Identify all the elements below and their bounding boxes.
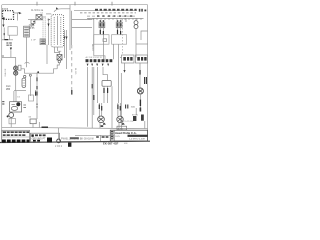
sub table dark dashes [96,136,108,138]
lamp E1 bulb 1 [134,21,138,25]
upper title cell [117,126,127,130]
wire long right mid [120,73,122,128]
connector X1 dotted box [51,15,63,47]
svg-text:EK-587 4SF: EK-587 4SF [103,142,119,146]
zone tick A [36,2,38,6]
border marks left [2,101,4,105]
legend box 2 [31,133,60,142]
dark dot left [7,115,9,117]
bracket hook [17,12,19,20]
tiny box [40,39,46,45]
pair feed into switch box [14,91,16,102]
wire h 27.5 [72,27,92,29]
border left [1,5,3,143]
wire [10,50,12,57]
border top [2,4,148,6]
wire K2 link [42,16,46,18]
small label box [29,95,34,101]
inner oval [11,106,17,110]
svg-text:2 OF 2: 2 OF 2 [55,146,63,148]
svg-text:1G4: 1G4 [6,86,11,88]
tiny terminals [33,21,35,23]
svg-text:BLK18: BLK18 [91,44,93,51]
arrowhead right [19,12,22,14]
title left col divider [113,130,115,141]
wire cont 1b [102,35,104,59]
svg-text:ASSY 47-210: ASSY 47-210 [120,120,134,123]
wire to R2 [120,57,122,59]
darker segment [70,137,79,139]
pair2 connector R [119,22,122,28]
cluster text marks [6,42,11,45]
title cell marks [111,131,113,140]
svg-text:2B6: 2B6 [6,89,11,91]
pair2 dark dashes [118,30,121,35]
dark segment 2 [139,108,141,112]
arrow down [2,25,4,28]
wire cluster to pin column [28,19,43,21]
ring terminal A [98,116,105,123]
dark tick near 102 [101,125,104,127]
pin column pair left of X1 [42,19,44,45]
dashed end dark tick [71,90,73,95]
wire cont 1 [93,18,95,55]
pair1 connector dark fill R [103,23,104,26]
strip pins [89,18,141,20]
X1 pin column left [53,17,55,45]
dark dash [93,95,95,100]
pair2 top marks [117,20,122,22]
switch box S1 [10,102,22,112]
dark arrow dash [139,100,141,106]
wire with arrow [48,19,50,46]
svg-text:AC DE FG HJ KL: AC DE FG HJ KL [86,56,104,59]
ring B glyph [118,118,122,121]
hook arrowhead [56,7,58,9]
border right [147,5,149,142]
junction dot [37,71,39,73]
small box under K2 [31,20,35,24]
module box M1 [102,81,111,87]
grommet stem [58,128,60,139]
equals marks [41,40,45,44]
gauge circle 2 [14,71,18,75]
box1 divider [2,131,30,133]
X box component [57,55,62,61]
side wire 2 arrow [66,37,68,40]
svg-text:Aasd Fhdte C.A.: Aasd Fhdte C.A. [115,131,137,135]
pair1 connector R [102,22,105,28]
relay K2 box [36,15,42,20]
ring terminal B [117,116,123,122]
relay K1 dashed box [3,11,14,20]
fuse marks eF [139,9,146,12]
wire from R2 down [124,63,126,70]
wire bend to bar [94,56,105,59]
svg-text:4L NO4-1a: 4L NO4-1a [31,9,44,12]
wire single down [36,96,38,119]
dashed vertical [71,45,73,90]
wire bottom gauges [14,90,26,92]
wire h 19.6 [72,19,92,21]
small arc hook [25,62,30,63]
pair1 connector dark fill [100,23,101,26]
feed stub [57,47,59,51]
ticks right of box [23,105,26,107]
L wire right [141,31,148,40]
coil hatch [24,28,29,36]
ring B stem [118,122,120,128]
pair2 connector dark fill R [120,23,121,26]
svg-text:1G: 1G [17,96,20,98]
terminal box left [8,27,17,36]
connector arrow down [10,48,12,51]
wire below equals [46,45,48,64]
pairB dark dashes [118,105,120,111]
cluster stub down [31,23,33,26]
harness dashed line [80,12,136,14]
wire box down [32,124,34,128]
wires below bar [87,67,89,127]
ring A glyph [99,118,103,121]
gauge circle 1 [14,66,18,70]
border bottom [0,141,150,142]
svg-text:DWN: DWN [115,136,120,138]
svg-text:NO: NO [30,27,34,29]
connector strip line [87,17,144,19]
line y40 [2,39,13,41]
pair2 connector dark fill [117,23,118,26]
side wire 2 [66,30,68,69]
wire [91,67,93,128]
title block outline [110,130,147,141]
arrow on wire [48,24,50,27]
wire from R3 down [139,63,141,88]
pairA wires [99,103,101,116]
title dark bar [128,135,148,137]
harness mid line [87,15,136,17]
box1 divider2 [2,136,30,138]
svg-text:4 OF: 4 OF [31,39,37,41]
wire cont 2 [113,44,115,59]
rail jog path [21,69,57,73]
dark blob mid [47,138,52,143]
dark dash on wire [139,70,141,75]
wire to right border [136,43,148,45]
wire long [97,67,99,103]
wire below horn [139,94,141,111]
scan marks top-left [2,8,8,9]
gauge 2 cross [14,72,17,74]
box2 dark text row [35,134,46,136]
dark dash b [91,84,93,88]
wire b [29,76,31,96]
X1 center line [56,16,58,45]
wire lamp down [135,29,137,58]
arrow on R2 wire [123,70,125,73]
module dark dashes [104,88,108,93]
dark dashes near border [145,77,147,84]
side wire 1 arrow [64,37,66,40]
relay box R3 [136,55,148,63]
K2 cross [36,15,42,20]
box1 text r1 [3,131,29,133]
wire from border [2,56,16,58]
wire ring down [10,117,12,127]
horn glyph [139,89,143,92]
dark segment on line [5,39,9,41]
sub table line [75,134,110,136]
harness label dark row [95,9,137,11]
wire pair2 left [117,20,119,35]
wire center 2 [71,11,73,45]
wire column from rail [36,73,38,96]
zone tick C [111,2,113,6]
coil component hatched [24,26,30,37]
wire coil down [26,37,28,67]
relay box R2 [122,55,135,63]
wire w dash [93,67,95,115]
pair1 top marks [99,20,104,22]
pair2 outline [112,35,127,45]
horn component [137,88,143,94]
ring B tail [122,122,125,125]
stem and bar of lamp module [58,51,61,54]
wire gauges vertical [15,57,17,90]
ring A tail [103,122,106,125]
X box cross [57,55,62,61]
pair1 connector L [99,22,102,28]
wire stub box [38,122,40,127]
wire pair1 left [99,20,101,35]
zone tick B [74,2,76,6]
dark tick on rail [42,126,49,128]
connector bar dark row [86,59,113,62]
side wire 1 [64,30,66,58]
R3 dark content [137,57,146,61]
wire pair2 right [120,20,122,35]
bar arrows [87,64,110,67]
wire center long [69,5,71,50]
terminal small box [18,65,21,70]
jog wire to rail [57,63,59,69]
resistor R1 [22,78,26,87]
lamp E1 bulb 2 [134,25,138,29]
grommet circle [57,139,61,143]
wire bend to module [103,67,108,81]
pair1 outline [94,35,109,45]
dark cluster twin [36,92,37,96]
stub pin [125,18,127,22]
wire stub [144,121,146,128]
legend box 1 [2,130,30,142]
box1 text r2 [3,134,26,136]
wire [3,28,5,40]
stub from terminal box [9,35,11,40]
dark dashes on column [36,77,38,89]
terminal circle under [58,60,60,62]
dark marks low [36,104,38,108]
dark knob [16,102,20,106]
svg-text:30A: 30A [131,105,135,108]
svg-text:BL RD: BL RD [74,68,76,75]
wire pair1 right [102,20,104,35]
small box mid [103,39,107,42]
divider wire [111,86,113,128]
wire cont long [118,44,120,103]
tick on wire [3,33,5,35]
dark blob below border [68,143,71,147]
side dark bars [126,105,128,109]
X1 pin column right [60,17,62,45]
wire column twin [35,90,37,96]
pair1 dark dashes [100,30,103,35]
connector box lower left [9,119,15,124]
inner mark [12,104,15,106]
pin column pair 2 [44,19,46,45]
wire K1 right with arrow [14,12,20,14]
harness solid line [74,10,137,12]
svg-text:GAUGE: GAUGE [4,68,7,76]
pairB wires [118,103,120,116]
pairA dark dashes [99,105,101,111]
R1 hatch [23,81,26,86]
dashed stub [122,19,124,55]
hook arc [54,9,70,12]
connector blob row [2,140,40,143]
arrow into X1 [48,19,51,21]
svg-text:1-4 SHT 2 2.4.89: 1-4 SHT 2 2.4.89 [129,139,146,141]
module wires down [104,86,108,103]
feed from X1 [55,47,60,53]
border tick [2,55,4,57]
title row dividers [110,133,114,138]
wire [135,108,137,115]
pair2 connector L [116,22,119,28]
part marks above title [133,115,144,122]
svg-text:GROUND PT: GROUND PT [32,139,46,141]
R2 dark content [123,57,132,61]
gauge 1 cross [14,67,17,69]
K1 corner dot [3,17,5,19]
ring A stem [99,122,101,128]
box2 dark mark [31,134,33,136]
wire to X1 [46,13,51,15]
ring under box [9,113,14,118]
wire lamp top [135,18,137,20]
long rail bottom [2,127,148,128]
small box above rail [30,119,36,124]
sub table divider [99,135,101,141]
wire from K1 [2,20,4,25]
terminal circle b [29,74,31,76]
terminal circle a [24,75,26,77]
harness mid marks [97,15,132,16]
